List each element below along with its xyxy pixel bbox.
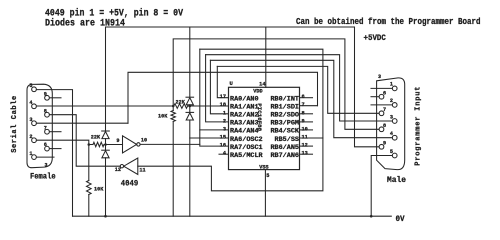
svg-text:RB4/SCK: RB4/SCK [270, 128, 299, 136]
svg-text:17: 17 [220, 94, 226, 100]
svg-text:11: 11 [302, 135, 308, 141]
svg-text:8: 8 [302, 110, 305, 116]
svg-text:Male: Male [387, 175, 406, 185]
svg-text:RA0/AN0: RA0/AN0 [230, 96, 259, 104]
svg-text:+5VDC: +5VDC [364, 33, 386, 43]
svg-text:VSS: VSS [259, 164, 268, 170]
svg-text:12: 12 [302, 143, 308, 149]
svg-text:14: 14 [259, 81, 266, 87]
svg-text:22K: 22K [176, 99, 186, 105]
svg-text:RB7/AN6: RB7/AN6 [270, 152, 299, 160]
svg-text:RA3/AN3: RA3/AN3 [230, 120, 259, 128]
svg-text:15: 15 [220, 135, 226, 141]
svg-text:RB1/SDI: RB1/SDI [270, 104, 299, 112]
svg-text:RB3/PGM: RB3/PGM [270, 120, 299, 128]
svg-text:1: 1 [29, 151, 32, 157]
svg-text:1: 1 [223, 110, 226, 116]
svg-text:RB6/AN5: RB6/AN5 [270, 144, 299, 152]
svg-text:Programmer Input: Programmer Input [414, 86, 422, 166]
svg-text:18: 18 [220, 102, 226, 108]
svg-text:6: 6 [44, 142, 47, 148]
svg-text:4: 4 [390, 131, 393, 137]
svg-text:11: 11 [139, 168, 145, 174]
svg-text:RA1/AN1: RA1/AN1 [230, 104, 259, 112]
svg-text:16: 16 [220, 143, 226, 149]
svg-text:RA5/MCLR: RA5/MCLR [230, 152, 264, 160]
svg-text:7: 7 [44, 125, 47, 131]
svg-text:7: 7 [302, 102, 305, 108]
svg-text:10K: 10K [158, 113, 168, 119]
svg-text:3: 3 [390, 114, 393, 120]
svg-text:0V: 0V [396, 214, 406, 224]
svg-text:RA2/AN2: RA2/AN2 [230, 112, 259, 120]
svg-text:9: 9 [116, 138, 119, 144]
svg-text:6: 6 [302, 94, 305, 100]
svg-text:7: 7 [383, 107, 386, 113]
svg-text:9: 9 [302, 118, 305, 124]
svg-text:6: 6 [383, 90, 386, 96]
svg-text:Can be obtained from the Progr: Can be obtained from the Programmer Boar… [296, 17, 481, 27]
svg-text:3: 3 [378, 74, 381, 80]
svg-text:5: 5 [390, 149, 393, 155]
svg-text:10: 10 [141, 138, 147, 144]
svg-text:1: 1 [390, 82, 393, 88]
svg-text:4: 4 [29, 100, 32, 106]
svg-text:Serial Cable: Serial Cable [11, 95, 19, 153]
svg-text:RB2/SDO: RB2/SDO [270, 112, 299, 120]
svg-text:10: 10 [302, 126, 308, 132]
svg-text:RA6/OSC2: RA6/OSC2 [230, 136, 263, 144]
svg-text:5: 5 [266, 173, 269, 179]
svg-text:5: 5 [29, 83, 32, 89]
svg-text:Female: Female [30, 172, 56, 182]
svg-text:22K: 22K [91, 135, 101, 141]
svg-text:2: 2 [390, 98, 393, 104]
svg-text:13: 13 [302, 151, 308, 157]
svg-text:Diodes are 1N914: Diodes are 1N914 [45, 17, 125, 28]
svg-text:9: 9 [383, 140, 386, 146]
svg-text:RA7/OSC1: RA7/OSC1 [230, 144, 263, 152]
svg-text:8: 8 [383, 123, 386, 129]
svg-text:3: 3 [45, 163, 48, 169]
svg-text:12: 12 [115, 167, 121, 173]
svg-text:2: 2 [29, 134, 32, 140]
svg-text:RA4/AN4: RA4/AN4 [230, 128, 259, 136]
svg-text:8: 8 [44, 108, 47, 114]
svg-text:U: U [230, 80, 233, 87]
svg-text:3: 3 [29, 117, 32, 123]
svg-text:4049: 4049 [121, 179, 138, 189]
svg-text:2: 2 [223, 118, 226, 124]
svg-text:RB5/SS: RB5/SS [275, 136, 299, 144]
svg-text:VDD: VDD [253, 88, 262, 94]
svg-text:9: 9 [44, 92, 47, 98]
svg-text:3: 3 [223, 126, 226, 132]
svg-text:RB0/INT: RB0/INT [270, 96, 299, 104]
svg-text:10K: 10K [94, 186, 104, 192]
